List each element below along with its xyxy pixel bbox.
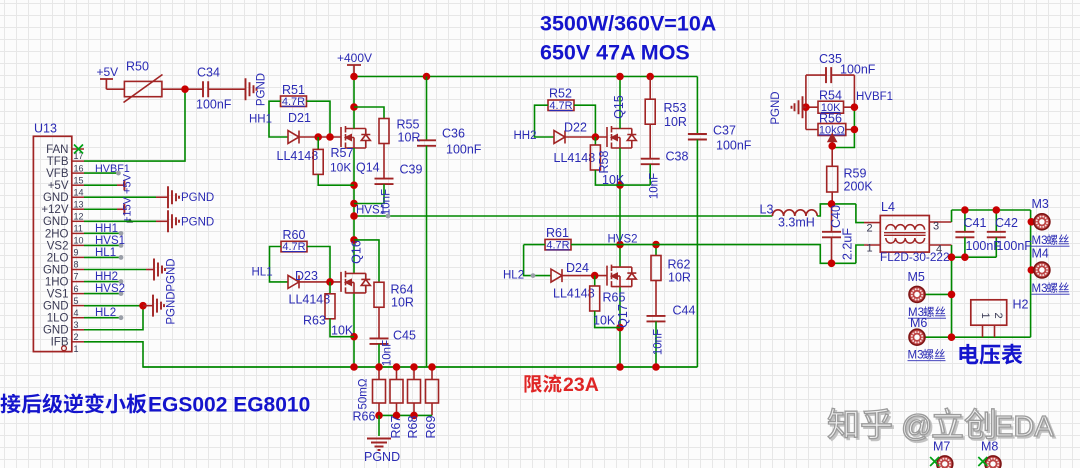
svg-text:2.2uF: 2.2uF xyxy=(841,228,855,260)
svg-text:R54: R54 xyxy=(819,89,842,103)
svg-text:10K: 10K xyxy=(330,161,351,175)
svg-text:C36: C36 xyxy=(442,127,465,141)
svg-text:23A: 23A xyxy=(563,374,599,396)
svg-text:LL4148: LL4148 xyxy=(553,287,595,301)
svg-text:Q17: Q17 xyxy=(616,304,630,328)
svg-text:GND: GND xyxy=(43,325,69,337)
svg-text:R50: R50 xyxy=(126,60,149,74)
svg-text:14: 14 xyxy=(74,187,84,197)
svg-text:3: 3 xyxy=(933,221,939,233)
svg-text:HH2: HH2 xyxy=(514,130,537,142)
svg-text:C44: C44 xyxy=(673,304,696,318)
svg-text:R65: R65 xyxy=(603,291,626,305)
svg-text:10K: 10K xyxy=(593,314,616,328)
svg-text:+5V: +5V xyxy=(48,180,69,192)
svg-text:PGND: PGND xyxy=(181,192,214,204)
svg-text:R63: R63 xyxy=(303,314,326,328)
svg-text:D24: D24 xyxy=(566,261,589,275)
svg-text:100nF: 100nF xyxy=(716,139,752,153)
svg-text:M3: M3 xyxy=(1032,235,1048,247)
svg-text:FAN: FAN xyxy=(46,144,68,156)
svg-text:L3: L3 xyxy=(760,203,774,217)
svg-text:4: 4 xyxy=(74,308,79,318)
svg-text:10K: 10K xyxy=(331,324,354,338)
svg-text:6: 6 xyxy=(74,284,79,294)
svg-text:R61: R61 xyxy=(546,226,569,240)
svg-text:HVS1: HVS1 xyxy=(95,235,125,247)
svg-text:R67: R67 xyxy=(389,415,403,438)
svg-text:2LO: 2LO xyxy=(47,252,69,264)
svg-text:M3: M3 xyxy=(1032,283,1048,295)
svg-text:C34: C34 xyxy=(197,66,220,80)
svg-text:100nF: 100nF xyxy=(840,63,876,77)
svg-text:R60: R60 xyxy=(283,228,306,242)
svg-text:C38: C38 xyxy=(666,150,689,164)
svg-text:+400V: +400V xyxy=(337,51,372,65)
svg-text:1: 1 xyxy=(867,243,873,255)
svg-text:M6: M6 xyxy=(910,316,927,330)
svg-text:@: @ xyxy=(901,408,932,443)
svg-text:VS2: VS2 xyxy=(47,240,69,252)
svg-text:10R: 10R xyxy=(664,115,687,129)
svg-text:13: 13 xyxy=(74,199,84,209)
svg-text:HVS2: HVS2 xyxy=(95,283,125,295)
svg-text:10R: 10R xyxy=(398,131,421,145)
svg-text:5: 5 xyxy=(74,296,79,306)
svg-text:D22: D22 xyxy=(564,121,587,135)
svg-text:PGND: PGND xyxy=(364,450,400,464)
svg-text:Q14: Q14 xyxy=(356,161,380,175)
svg-text:3: 3 xyxy=(74,320,79,330)
svg-text:C39: C39 xyxy=(400,163,423,177)
svg-text:C35: C35 xyxy=(819,52,842,66)
svg-text:M4: M4 xyxy=(1032,247,1049,261)
svg-text:R56: R56 xyxy=(819,111,842,125)
svg-text:R57: R57 xyxy=(331,146,354,160)
svg-text:4.7R: 4.7R xyxy=(282,241,305,253)
svg-text:R64: R64 xyxy=(391,283,414,297)
svg-text:D21: D21 xyxy=(288,111,311,125)
svg-text:PGND: PGND xyxy=(166,291,178,324)
svg-text:8: 8 xyxy=(74,260,79,270)
svg-text:11: 11 xyxy=(74,224,83,234)
svg-text:HH2: HH2 xyxy=(95,271,118,283)
svg-text:R58: R58 xyxy=(597,150,611,173)
svg-text:VFB: VFB xyxy=(46,168,69,180)
svg-text:10R: 10R xyxy=(668,271,691,285)
svg-text:C45: C45 xyxy=(393,329,416,343)
svg-text:R62: R62 xyxy=(668,258,691,272)
svg-text:C37: C37 xyxy=(713,124,736,138)
svg-text:D23: D23 xyxy=(295,269,318,283)
svg-text:3500W/360V=10A: 3500W/360V=10A xyxy=(540,12,716,36)
svg-text:10nF: 10nF xyxy=(653,329,665,355)
svg-text:M5: M5 xyxy=(908,270,925,284)
svg-text:HL1: HL1 xyxy=(95,247,116,259)
svg-text:GND: GND xyxy=(43,192,69,204)
svg-text:10nF: 10nF xyxy=(381,189,393,215)
svg-text:R59: R59 xyxy=(844,167,867,181)
svg-text:100nF: 100nF xyxy=(997,239,1033,253)
svg-text:R69: R69 xyxy=(424,415,438,438)
svg-text:VS1: VS1 xyxy=(47,289,69,301)
svg-text:R55: R55 xyxy=(397,118,420,132)
svg-text:PGND: PGND xyxy=(256,73,268,106)
svg-text:1: 1 xyxy=(74,344,79,354)
svg-text:LL4148: LL4148 xyxy=(289,293,331,307)
svg-text:9: 9 xyxy=(74,248,79,258)
svg-text:650V 47A MOS: 650V 47A MOS xyxy=(540,41,690,65)
svg-text:4.7R: 4.7R xyxy=(282,96,305,108)
svg-text:PGND: PGND xyxy=(166,258,178,291)
svg-text:HL2: HL2 xyxy=(95,307,116,319)
svg-text:PGND: PGND xyxy=(770,91,782,124)
svg-text:M3: M3 xyxy=(908,350,924,362)
svg-text:TFB: TFB xyxy=(47,156,69,168)
svg-text:M7: M7 xyxy=(933,440,950,454)
svg-text:H2: H2 xyxy=(1013,298,1029,312)
svg-text:+15V: +15V xyxy=(122,196,134,223)
svg-text:GND: GND xyxy=(43,301,69,313)
svg-text:4.7R: 4.7R xyxy=(549,100,572,112)
svg-text:1HO: 1HO xyxy=(45,276,69,288)
svg-text:R52: R52 xyxy=(549,87,572,101)
svg-text:10nF: 10nF xyxy=(649,173,661,199)
svg-text:C42: C42 xyxy=(995,216,1018,230)
svg-text:Q16: Q16 xyxy=(350,240,364,264)
svg-text:2HO: 2HO xyxy=(45,228,69,240)
svg-text:R68: R68 xyxy=(406,415,420,438)
svg-text:EGS002 EG8010: EGS002 EG8010 xyxy=(148,394,310,417)
svg-text:C40: C40 xyxy=(829,205,843,228)
svg-text:HL1: HL1 xyxy=(252,267,273,279)
svg-text:GND: GND xyxy=(43,216,69,228)
svg-text:10nF: 10nF xyxy=(382,340,394,366)
svg-text:1: 1 xyxy=(979,312,991,318)
svg-text:4.7R: 4.7R xyxy=(546,239,569,251)
svg-text:+5V: +5V xyxy=(97,65,119,79)
svg-text:R66: R66 xyxy=(353,410,376,424)
svg-text:16: 16 xyxy=(74,163,84,173)
svg-text:50mΩ: 50mΩ xyxy=(358,378,370,409)
svg-text:15: 15 xyxy=(74,175,84,185)
svg-text:R53: R53 xyxy=(664,101,687,115)
svg-text:10R: 10R xyxy=(391,296,414,310)
svg-text:U13: U13 xyxy=(34,122,57,136)
svg-text:10K: 10K xyxy=(602,173,625,187)
svg-text:Q15: Q15 xyxy=(612,95,626,119)
svg-text:HH1: HH1 xyxy=(95,223,118,235)
svg-text:3.3mH: 3.3mH xyxy=(778,216,815,230)
svg-text:EDA: EDA xyxy=(994,411,1054,443)
svg-text:HVBF1: HVBF1 xyxy=(856,91,893,103)
svg-text:GND: GND xyxy=(43,264,69,276)
svg-text:C41: C41 xyxy=(964,216,987,230)
svg-text:HH1: HH1 xyxy=(249,114,272,126)
svg-text:2: 2 xyxy=(74,332,79,342)
svg-text:L4: L4 xyxy=(881,200,895,214)
svg-text:+5V: +5V xyxy=(122,173,134,194)
svg-text:FL2D-30-222: FL2D-30-222 xyxy=(880,250,950,264)
svg-text:2: 2 xyxy=(992,312,1004,318)
svg-text:200K: 200K xyxy=(844,180,874,194)
svg-text:1LO: 1LO xyxy=(47,313,69,325)
svg-text:100nF: 100nF xyxy=(446,143,482,157)
svg-text:+12V: +12V xyxy=(41,204,69,216)
svg-text:10: 10 xyxy=(74,236,84,246)
svg-text:100nF: 100nF xyxy=(196,98,232,112)
svg-text:LL4148: LL4148 xyxy=(554,151,596,165)
svg-text:HVS2: HVS2 xyxy=(608,234,638,246)
svg-text:PGND: PGND xyxy=(181,216,214,228)
svg-text:LL4148: LL4148 xyxy=(277,149,319,163)
svg-text:M3: M3 xyxy=(1032,197,1049,211)
svg-text:7: 7 xyxy=(74,272,79,282)
svg-text:12: 12 xyxy=(74,211,84,221)
svg-text:HL2: HL2 xyxy=(503,270,524,282)
svg-text:2: 2 xyxy=(867,223,873,235)
